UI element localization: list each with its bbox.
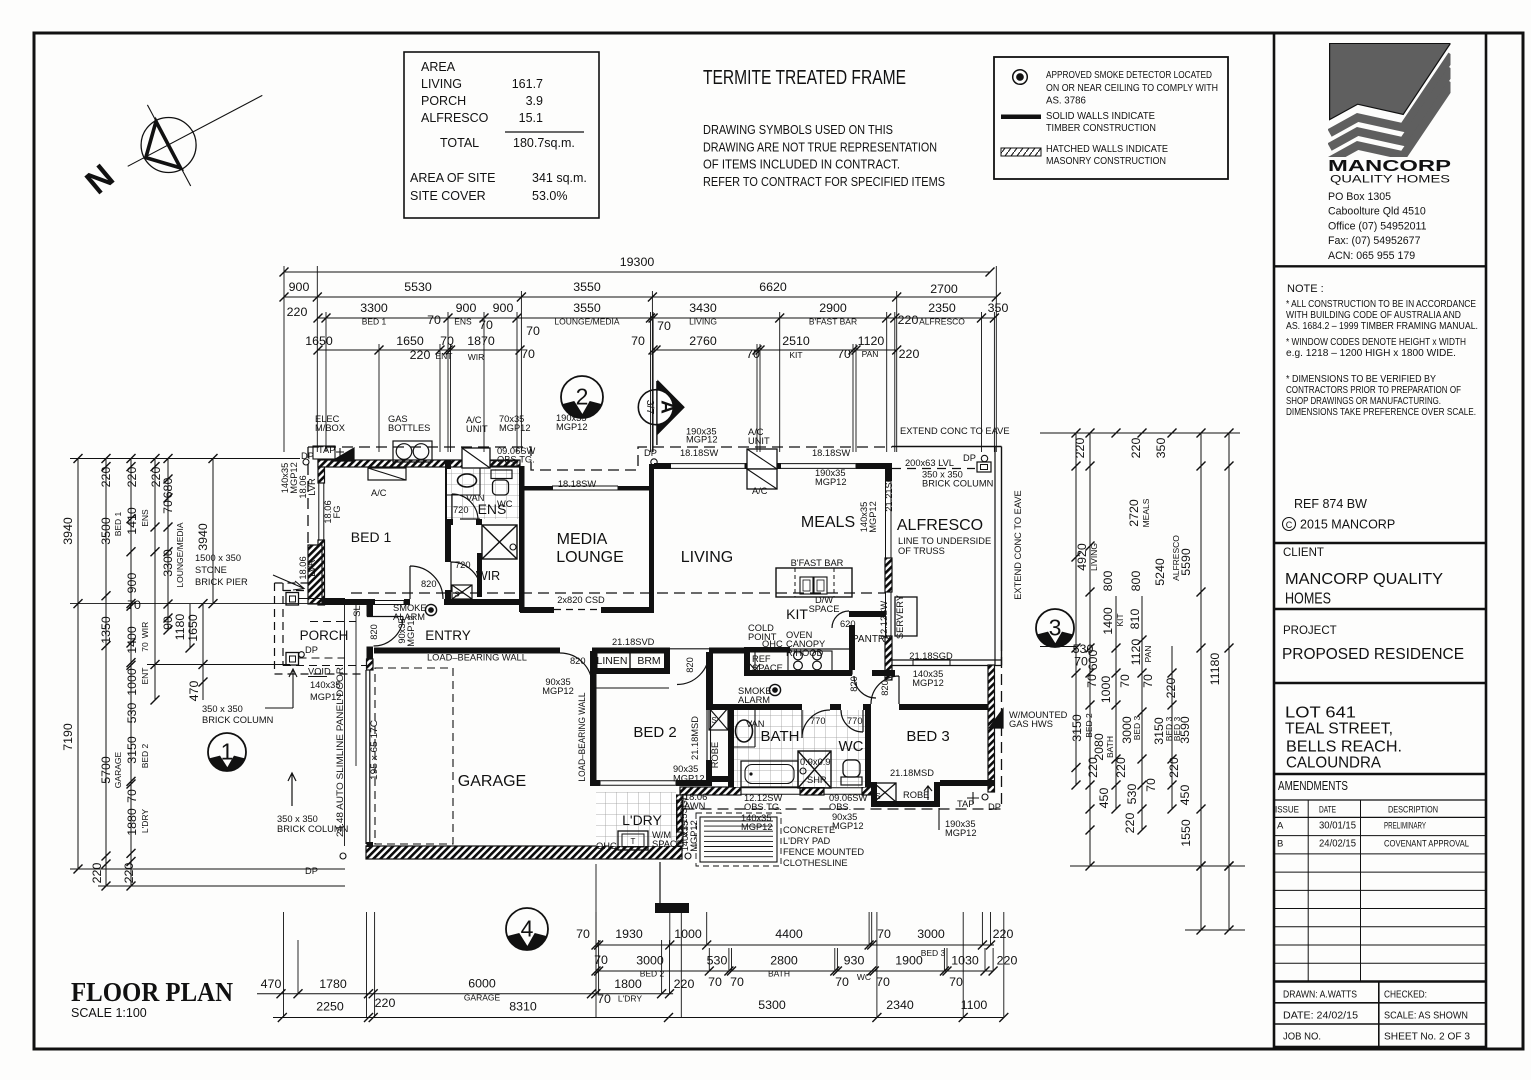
svg-text:820: 820 (421, 579, 437, 589)
svg-text:PORCH: PORCH (300, 628, 349, 643)
svg-text:5530: 5530 (404, 280, 432, 294)
svg-text:220: 220 (122, 863, 136, 884)
svg-text:CONCRETE: CONCRETE (783, 825, 835, 835)
svg-text:UNIT: UNIT (466, 424, 488, 434)
svg-text:200x63 LVL: 200x63 LVL (905, 458, 954, 468)
svg-text:1: 1 (221, 739, 234, 765)
svg-text:3: 3 (1049, 615, 1062, 641)
svg-text:BED 2: BED 2 (633, 724, 676, 741)
svg-text:MGP12: MGP12 (673, 774, 705, 784)
svg-text:L'DRY: L'DRY (140, 809, 150, 833)
svg-text:OF TRUSS: OF TRUSS (898, 546, 945, 556)
svg-text:BATH: BATH (761, 728, 800, 745)
svg-text:ALFRESCO: ALFRESCO (919, 317, 965, 327)
svg-text:470: 470 (261, 977, 282, 991)
svg-text:18.18SW: 18.18SW (680, 448, 718, 458)
svg-text:LVR: LVR (307, 559, 317, 577)
svg-text:BATH: BATH (768, 969, 790, 979)
svg-text:PORCH: PORCH (421, 94, 466, 108)
svg-text:90x35: 90x35 (673, 764, 698, 774)
svg-text:ALARM: ALARM (738, 695, 770, 705)
svg-text:2: 2 (576, 384, 589, 410)
svg-text:B'FAST BAR: B'FAST BAR (809, 317, 857, 327)
svg-text:CLIENT: CLIENT (1283, 547, 1324, 559)
svg-text:OF ITEMS INCLUDED IN CONTR: OF ITEMS INCLUDED IN CONTRACT. (703, 157, 900, 172)
svg-text:SL: SL (352, 605, 362, 616)
svg-text:M/BOX: M/BOX (315, 423, 345, 433)
svg-text:AS. 3786: AS. 3786 (1046, 96, 1086, 107)
svg-text:2510: 2510 (782, 334, 810, 348)
svg-text:3300: 3300 (360, 301, 388, 315)
svg-text:1780: 1780 (319, 977, 347, 991)
svg-text:PROJECT: PROJECT (1283, 625, 1337, 637)
svg-text:A/C: A/C (371, 488, 387, 498)
svg-text:OBS.TG.: OBS.TG. (744, 802, 782, 812)
svg-text:AMENDMENTS: AMENDMENTS (1278, 779, 1348, 793)
svg-text:LIVING: LIVING (421, 77, 462, 91)
svg-text:C: C (1286, 520, 1293, 530)
svg-text:WC: WC (857, 972, 871, 982)
svg-text:21.18MSD: 21.18MSD (890, 768, 934, 778)
svg-text:1800: 1800 (614, 977, 642, 991)
svg-text:CALOUNDRA: CALOUNDRA (1286, 755, 1381, 772)
svg-text:2250: 2250 (316, 1000, 344, 1014)
svg-text:PRELIMINARY: PRELIMINARY (1384, 821, 1426, 831)
svg-text:3000: 3000 (636, 954, 664, 968)
svg-text:820: 820 (570, 656, 586, 666)
svg-text:2800: 2800 (770, 954, 798, 968)
svg-text:70: 70 (1144, 778, 1158, 792)
svg-text:220: 220 (899, 347, 920, 361)
svg-text:4920: 4920 (1075, 543, 1089, 571)
svg-text:470: 470 (187, 681, 201, 702)
svg-text:70: 70 (127, 598, 141, 612)
svg-text:BED 3: BED 3 (906, 728, 949, 745)
svg-text:70: 70 (576, 927, 590, 941)
svg-text:1000: 1000 (674, 927, 702, 941)
svg-text:DIMENSIONS TAKE PREFERENCE OVE: DIMENSIONS TAKE PREFERENCE OVER SCALE. (1286, 407, 1476, 418)
svg-text:220: 220 (1167, 757, 1181, 778)
svg-text:53.0%: 53.0% (532, 189, 567, 203)
svg-text:FLOOR PLAN: FLOOR PLAN (71, 977, 233, 1007)
svg-text:3.9: 3.9 (526, 94, 543, 108)
svg-text:11180: 11180 (1208, 653, 1222, 686)
svg-text:Office (07) 54952011: Office (07) 54952011 (1328, 220, 1427, 232)
svg-text:70: 70 (657, 319, 671, 333)
svg-text:ENT: ENT (436, 351, 453, 361)
svg-text:LOAD–BEARING WALL: LOAD–BEARING WALL (427, 653, 527, 663)
svg-text:BED 3: BED 3 (1172, 716, 1182, 741)
svg-text:S: S (875, 792, 880, 801)
svg-text:70: 70 (161, 500, 175, 514)
svg-text:220: 220 (1086, 757, 1100, 778)
svg-text:WIR: WIR (468, 352, 485, 362)
svg-text:ENS: ENS (454, 317, 472, 327)
svg-text:2350: 2350 (928, 301, 956, 315)
svg-text:AREA OF SITE: AREA OF SITE (410, 171, 495, 185)
svg-text:Fax: (07) 54952677: Fax: (07) 54952677 (1328, 235, 1421, 247)
svg-text:GAS HWS: GAS HWS (1009, 719, 1053, 729)
svg-text:MGP12: MGP12 (912, 678, 944, 688)
svg-text:KIT: KIT (789, 350, 802, 360)
svg-text:341 sq.m.: 341 sq.m. (532, 171, 587, 185)
svg-text:220: 220 (898, 313, 919, 327)
svg-text:LIVING: LIVING (689, 317, 717, 327)
svg-text:220: 220 (1123, 813, 1137, 834)
svg-text:MEALS: MEALS (1141, 498, 1151, 527)
svg-text:5300: 5300 (758, 998, 786, 1012)
svg-text:1650: 1650 (396, 334, 424, 348)
svg-text:1930: 1930 (615, 927, 643, 941)
svg-text:DESCRIPTION: DESCRIPTION (1388, 805, 1438, 815)
svg-text:1870: 1870 (467, 334, 495, 348)
svg-text:8310: 8310 (509, 1000, 537, 1014)
svg-text:220: 220 (90, 863, 104, 884)
svg-text:220: 220 (99, 467, 113, 488)
svg-text:5700: 5700 (99, 756, 113, 784)
svg-text:EXTEND CONC TO EAVE: EXTEND CONC TO EAVE (900, 426, 1010, 436)
svg-text:3940: 3940 (196, 523, 210, 551)
svg-text:1500 x 350: 1500 x 350 (195, 553, 241, 563)
svg-text:MGP12: MGP12 (289, 462, 299, 494)
svg-text:70: 70 (1085, 674, 1099, 688)
svg-text:820: 820 (685, 657, 695, 673)
svg-text:B'FAST BAR: B'FAST BAR (791, 558, 844, 568)
svg-text:CHECKED:: CHECKED: (1384, 989, 1427, 1001)
svg-text:SHEET No. 2 OF 3: SHEET No. 2 OF 3 (1384, 1031, 1470, 1043)
svg-text:530: 530 (1125, 784, 1139, 805)
svg-text:OHC: OHC (762, 639, 783, 649)
svg-text:810: 810 (1128, 609, 1142, 630)
svg-text:SITE COVER: SITE COVER (410, 189, 486, 203)
svg-text:DP: DP (301, 451, 314, 461)
svg-text:2080: 2080 (1092, 733, 1106, 761)
svg-text:AREA: AREA (421, 60, 456, 74)
svg-text:220: 220 (375, 996, 396, 1010)
svg-text:DRAWN: A.WATTS: DRAWN: A.WATTS (1283, 989, 1357, 1001)
svg-text:70: 70 (1141, 674, 1155, 688)
svg-text:S: S (454, 590, 459, 599)
svg-text:1400: 1400 (1101, 607, 1115, 635)
svg-text:ALFRESCO: ALFRESCO (897, 517, 983, 534)
svg-text:S: S (711, 716, 716, 725)
svg-text:3000: 3000 (917, 927, 945, 941)
svg-text:L'DRY: L'DRY (622, 812, 662, 828)
svg-text:BED 2: BED 2 (140, 743, 150, 768)
svg-text:4: 4 (521, 916, 534, 942)
svg-text:1900: 1900 (895, 954, 923, 968)
svg-text:B: B (1277, 839, 1283, 850)
svg-text:770: 770 (810, 716, 826, 726)
svg-text:BOTTLES: BOTTLES (388, 423, 430, 433)
svg-text:DATE: DATE (1319, 805, 1336, 815)
svg-text:GARAGE: GARAGE (113, 751, 123, 788)
svg-text:820: 820 (849, 676, 859, 692)
svg-text:DP: DP (988, 802, 1001, 812)
svg-text:70: 70 (140, 642, 150, 652)
svg-text:70: 70 (125, 789, 139, 803)
svg-text:GARAGE: GARAGE (458, 773, 526, 790)
svg-text:MANCORP QUALITY: MANCORP QUALITY (1285, 571, 1443, 588)
svg-text:NOTE :: NOTE : (1287, 283, 1324, 295)
svg-text:WC: WC (839, 738, 864, 755)
svg-text:220: 220 (125, 467, 139, 488)
svg-text:1120: 1120 (858, 334, 885, 348)
svg-text:2015 MANCORP: 2015 MANCORP (1300, 518, 1395, 532)
svg-text:BED 2: BED 2 (640, 969, 665, 979)
svg-text:MGP12: MGP12 (499, 423, 531, 433)
svg-text:3/7: 3/7 (644, 400, 656, 415)
svg-text:900: 900 (289, 280, 310, 294)
svg-text:OBS.TG.: OBS.TG. (497, 455, 535, 465)
svg-text:1000: 1000 (125, 668, 139, 696)
svg-text:PO Box 1305: PO Box 1305 (1328, 191, 1391, 203)
svg-text:TIMBER CONSTRUCTION: TIMBER CONSTRUCTION (1046, 123, 1156, 134)
svg-text:REF 874 BW: REF 874 BW (1294, 497, 1367, 511)
svg-text:SOLID WALLS INDICATE: SOLID WALLS INDICATE (1046, 111, 1156, 122)
svg-text:MGP12: MGP12 (689, 820, 699, 852)
svg-text:720: 720 (455, 560, 471, 570)
svg-text:220: 220 (1129, 438, 1143, 459)
svg-text:15.1: 15.1 (519, 111, 543, 125)
svg-text:BELLS REACH.: BELLS REACH. (1286, 739, 1402, 756)
svg-text:620: 620 (840, 619, 856, 629)
svg-text:1030: 1030 (951, 954, 979, 968)
svg-text:1000: 1000 (1099, 676, 1113, 704)
svg-text:ENS: ENS (140, 509, 150, 527)
svg-text:CONTRACTORS PRIOR TO PREPARATI: CONTRACTORS PRIOR TO PREPARATION OF (1286, 385, 1461, 396)
svg-text:2900: 2900 (819, 301, 847, 315)
svg-text:PAN: PAN (862, 349, 879, 359)
svg-text:530: 530 (707, 954, 728, 968)
svg-text:530: 530 (125, 703, 139, 724)
svg-text:SPACE: SPACE (809, 604, 840, 614)
svg-text:2700: 2700 (930, 282, 958, 296)
svg-text:0.9x0.9: 0.9x0.9 (800, 757, 831, 767)
svg-text:TAP: TAP (957, 799, 974, 809)
svg-text:21.18SVD: 21.18SVD (612, 637, 655, 647)
svg-text:70: 70 (479, 318, 493, 332)
svg-text:350 x 350: 350 x 350 (202, 704, 243, 714)
svg-text:820: 820 (369, 624, 379, 640)
svg-text:LVR: LVR (307, 478, 317, 496)
svg-text:WC: WC (497, 499, 513, 509)
svg-text:220: 220 (410, 348, 431, 362)
svg-text:JOB NO.: JOB NO. (1283, 1031, 1321, 1043)
svg-text:1410: 1410 (125, 507, 139, 535)
svg-text:350: 350 (1154, 438, 1168, 459)
svg-text:ACN: 065 955 179: ACN: 065 955 179 (1328, 250, 1415, 262)
svg-text:6620: 6620 (759, 280, 787, 294)
svg-text:3430: 3430 (689, 301, 717, 315)
svg-text:220: 220 (997, 954, 1018, 968)
svg-text:BRICK PIER: BRICK PIER (195, 577, 248, 587)
svg-text:70: 70 (835, 975, 849, 989)
svg-text:KIT: KIT (786, 606, 808, 622)
svg-text:ENT: ENT (140, 668, 150, 685)
svg-text:REFER TO CONTRACT FOR SPEC: REFER TO CONTRACT FOR SPECIFIED ITEMS (703, 174, 945, 189)
svg-text:BRICK COLUMN: BRICK COLUMN (202, 715, 273, 725)
svg-text:70: 70 (1118, 674, 1132, 688)
svg-text:MGP12: MGP12 (741, 822, 773, 832)
svg-text:OBS.: OBS. (829, 802, 851, 812)
svg-text:FENCE MOUNTED: FENCE MOUNTED (783, 847, 864, 857)
svg-text:ON OR NEAR CEILING TO COM: ON OR NEAR CEILING TO COMPLY WITH (1046, 83, 1218, 94)
svg-text:e.g. 1218 – 1200 HIGH x 1800 W: e.g. 1218 – 1200 HIGH x 1800 WIDE. (1286, 348, 1456, 359)
svg-text:VOID: VOID (308, 667, 331, 677)
svg-text:70: 70 (708, 975, 722, 989)
svg-text:MGP12: MGP12 (815, 477, 847, 487)
svg-text:R/HOOD: R/HOOD (786, 648, 823, 658)
svg-text:TERMITE TREATED FRAME: TERMITE TREATED FRAME (703, 67, 906, 89)
svg-text:BATH: BATH (1105, 736, 1115, 758)
svg-text:BED 1: BED 1 (351, 529, 392, 545)
svg-text:LOT 641: LOT 641 (1285, 705, 1356, 722)
svg-text:70: 70 (631, 334, 645, 348)
svg-text:BED 1: BED 1 (113, 511, 123, 536)
svg-text:19300: 19300 (620, 255, 655, 269)
svg-text:680: 680 (161, 478, 175, 499)
svg-text:A/C: A/C (752, 486, 768, 496)
svg-text:HATCHED WALLS INDICATE: HATCHED WALLS INDICATE (1046, 144, 1169, 155)
svg-text:DRAWING ARE NOT TRUE REPRE: DRAWING ARE NOT TRUE REPRESENTATION (703, 139, 937, 154)
svg-text:24.48 AUTO SLIMLINE PANEL: 24.48 AUTO SLIMLINE PANEL DOOR (335, 667, 345, 837)
svg-text:12.12SW: 12.12SW (879, 601, 889, 639)
svg-text:KIT: KIT (1115, 613, 1125, 626)
svg-text:1120: 1120 (1129, 639, 1143, 666)
svg-text:21.18SGD: 21.18SGD (909, 651, 953, 661)
svg-text:350 x 350: 350 x 350 (277, 814, 318, 824)
svg-text:3150: 3150 (125, 736, 139, 764)
svg-text:SPACE: SPACE (652, 839, 683, 849)
svg-text:SCALE: AS SHOWN: SCALE: AS SHOWN (1384, 1010, 1468, 1022)
svg-text:720: 720 (453, 505, 469, 515)
svg-text:1180: 1180 (173, 614, 187, 641)
svg-text:220: 220 (1164, 678, 1178, 699)
svg-text:MGP12: MGP12 (406, 615, 416, 647)
svg-text:30/01/15: 30/01/15 (1319, 821, 1356, 832)
svg-text:21.18MSD: 21.18MSD (690, 716, 700, 760)
svg-text:900: 900 (125, 573, 139, 594)
svg-text:* ALL CONSTRUCTION TO BE IN AC: * ALL CONSTRUCTION TO BE IN ACCORDANCE (1286, 299, 1476, 310)
svg-text:T: T (631, 837, 636, 846)
svg-text:CLOTHESLINE: CLOTHESLINE (783, 858, 848, 868)
svg-text:MGP12: MGP12 (868, 501, 878, 533)
svg-text:220: 220 (674, 977, 695, 991)
svg-text:SERVERY: SERVERY (895, 595, 905, 639)
svg-text:DP: DP (305, 645, 318, 655)
svg-text:3550: 3550 (573, 280, 601, 294)
svg-text:VAN: VAN (466, 493, 484, 503)
svg-text:450: 450 (1097, 788, 1111, 809)
svg-text:4400: 4400 (775, 927, 803, 941)
svg-text:BED 1: BED 1 (362, 317, 387, 327)
svg-text:BED 3: BED 3 (1132, 715, 1142, 740)
svg-text:APPROVED SMOKE DETECTOR LOC: APPROVED SMOKE DETECTOR LOCATED (1046, 70, 1212, 81)
svg-text:70: 70 (594, 953, 608, 967)
svg-text:800: 800 (1129, 571, 1143, 592)
svg-text:3150: 3150 (1070, 714, 1084, 742)
svg-text:LOAD–BEARING WALL: LOAD–BEARING WALL (577, 693, 587, 782)
svg-text:450: 450 (1178, 785, 1192, 806)
svg-text:MGP12: MGP12 (542, 686, 574, 696)
svg-text:BED 3: BED 3 (921, 948, 946, 958)
svg-text:TAP: TAP (318, 445, 335, 455)
svg-text:ENTRY: ENTRY (425, 628, 471, 643)
svg-text:180.7sq.m.: 180.7sq.m. (513, 136, 575, 150)
svg-text:DP: DP (963, 453, 976, 463)
svg-text:WIR: WIR (476, 569, 500, 583)
svg-text:FG: FG (332, 506, 342, 519)
svg-text:820: 820 (880, 680, 890, 696)
svg-text:70: 70 (1074, 655, 1088, 669)
svg-text:24/02/15: 24/02/15 (1319, 839, 1356, 850)
svg-text:LOUNGE/MEDIA: LOUNGE/MEDIA (554, 317, 620, 327)
svg-text:70: 70 (526, 324, 540, 338)
svg-text:2760: 2760 (689, 334, 717, 348)
svg-text:STONE: STONE (195, 565, 227, 575)
svg-text:WIR: WIR (140, 622, 150, 639)
svg-text:ROBE: ROBE (710, 742, 720, 768)
svg-text:930: 930 (844, 954, 865, 968)
svg-text:A: A (657, 400, 678, 414)
svg-text:PAN: PAN (1143, 646, 1153, 663)
svg-text:7190: 7190 (61, 723, 75, 751)
svg-text:70: 70 (521, 347, 535, 361)
svg-text:SHOP DRAWINGS OR MANUFACTURING: SHOP DRAWINGS OR MANUFACTURING. (1286, 396, 1441, 407)
svg-text:DP: DP (305, 866, 318, 876)
svg-text:BRM: BRM (637, 655, 660, 667)
svg-text:70: 70 (440, 334, 454, 348)
svg-text:MGP12: MGP12 (556, 422, 588, 432)
svg-text:6000: 6000 (468, 977, 496, 991)
svg-text:220: 220 (1114, 757, 1128, 778)
svg-text:PROPOSED RESIDENCE: PROPOSED RESIDENCE (1282, 646, 1464, 663)
svg-text:1650: 1650 (186, 614, 200, 642)
svg-text:1400: 1400 (125, 626, 139, 654)
svg-text:SPACE: SPACE (752, 663, 783, 673)
svg-text:* WINDOW CODES DENOTE HEIGHT x: * WINDOW CODES DENOTE HEIGHT x WIDTH (1286, 337, 1466, 348)
svg-text:MANCORP: MANCORP (1328, 158, 1451, 175)
svg-text:HOMES: HOMES (1285, 591, 1331, 608)
svg-text:1350: 1350 (99, 616, 113, 644)
svg-text:SCALE 1:100: SCALE 1:100 (71, 1006, 147, 1020)
svg-text:WITH BUILDING CODE OF AUSTRALI: WITH BUILDING CODE OF AUSTRALIA AND (1286, 310, 1461, 321)
svg-text:L'DRY PAD: L'DRY PAD (783, 836, 831, 846)
svg-text:70: 70 (949, 975, 963, 989)
svg-text:1650: 1650 (305, 334, 333, 348)
svg-text:70: 70 (877, 927, 891, 941)
svg-text:21.21SGD: 21.21SGD (884, 468, 894, 512)
svg-text:MEALS: MEALS (801, 514, 855, 531)
svg-text:LIVING: LIVING (1089, 543, 1099, 571)
svg-text:LIVING: LIVING (681, 549, 733, 566)
svg-text:220: 220 (1073, 438, 1087, 459)
svg-text:ISSUE: ISSUE (1275, 805, 1299, 815)
svg-text:ALFRESCO: ALFRESCO (421, 111, 489, 125)
svg-text:2x820 CSD: 2x820 CSD (557, 595, 605, 605)
svg-text:* DIMENSIONS TO BE VERIFIED BY: * DIMENSIONS TO BE VERIFIED BY (1286, 374, 1436, 385)
svg-text:18.18SW: 18.18SW (558, 479, 596, 489)
svg-text:350: 350 (988, 301, 1009, 315)
svg-text:3500: 3500 (99, 517, 113, 545)
svg-text:18.18SW: 18.18SW (812, 448, 850, 458)
svg-text:MGP12: MGP12 (945, 828, 977, 838)
svg-text:BRICK COLUMN: BRICK COLUMN (922, 479, 993, 489)
svg-text:DATE: 24/02/15: DATE: 24/02/15 (1283, 1010, 1358, 1022)
svg-text:5590: 5590 (1179, 548, 1193, 576)
svg-text:161.7: 161.7 (512, 77, 543, 91)
